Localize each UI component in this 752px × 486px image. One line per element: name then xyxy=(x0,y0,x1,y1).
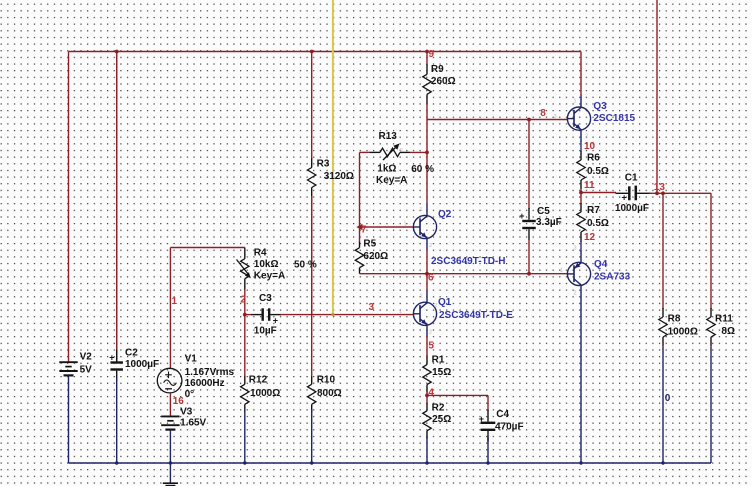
node 6 junction Q2emitter/Q1collector xyxy=(425,272,429,276)
resistor R8 xyxy=(659,308,667,348)
resistor R3 xyxy=(308,52,316,315)
svg-text:R3: R3 xyxy=(317,158,330,169)
svg-text:10: 10 xyxy=(584,141,596,152)
wire ground bottom bus net 0 xyxy=(69,462,712,464)
svg-text:1000Ω: 1000Ω xyxy=(668,327,698,338)
svg-text:+: + xyxy=(479,414,484,424)
potentiometer R13 xyxy=(360,144,428,161)
svg-text:V3: V3 xyxy=(180,406,193,417)
svg-text:3: 3 xyxy=(554,114,557,120)
svg-text:Key=A: Key=A xyxy=(376,175,407,186)
ground symbol xyxy=(163,463,178,486)
wire node2 down to R12 xyxy=(244,315,246,376)
node junction R8 top xyxy=(661,191,665,195)
svg-text:2: 2 xyxy=(585,134,588,140)
svg-text:3: 3 xyxy=(369,302,375,313)
svg-text:5: 5 xyxy=(428,340,434,351)
capacitor C1 xyxy=(616,186,651,203)
node 8 wire R9 to Q3 base xyxy=(427,119,568,121)
svg-text:15Ω: 15Ω xyxy=(432,367,451,378)
svg-text:R8: R8 xyxy=(668,314,681,325)
svg-text:2: 2 xyxy=(429,330,432,336)
svg-text:9: 9 xyxy=(429,49,435,60)
svg-text:1: 1 xyxy=(420,207,423,213)
wire C4 bottom to ground bus xyxy=(487,437,489,463)
svg-text:o: o xyxy=(400,147,403,153)
svg-text:3120Ω: 3120Ω xyxy=(324,171,354,182)
svg-text:16000Hz: 16000Hz xyxy=(185,378,225,389)
svg-text:R7: R7 xyxy=(587,205,600,216)
wire node13 down to R8 xyxy=(662,193,664,309)
svg-text:+: + xyxy=(109,353,114,363)
svg-text:3.3µF: 3.3µF xyxy=(536,217,562,228)
svg-text:R5: R5 xyxy=(363,238,376,249)
svg-text:1: 1 xyxy=(574,99,577,105)
svg-text:2SC3649T-TD-H: 2SC3649T-TD-H xyxy=(431,256,505,267)
svg-text:C3: C3 xyxy=(259,293,272,304)
wire node8 down to R13/Q2 xyxy=(426,120,428,205)
wire vertical x=657 from top to node 13 xyxy=(656,0,658,193)
svg-text:470µF: 470µF xyxy=(495,421,524,432)
pin marks xyxy=(399,99,588,336)
svg-text:R2: R2 xyxy=(432,403,445,414)
svg-text:10kΩ: 10kΩ xyxy=(254,259,279,270)
svg-text:R12: R12 xyxy=(249,374,268,385)
svg-text:1000µF: 1000µF xyxy=(615,203,649,214)
svg-text:60 %: 60 % xyxy=(411,164,434,175)
wire Q1 emitter to R1 node 5 xyxy=(426,336,428,356)
wire corner down to R11 xyxy=(710,193,712,309)
svg-text:R9: R9 xyxy=(431,64,444,75)
svg-text:V2: V2 xyxy=(80,352,93,363)
svg-text:1kΩ: 1kΩ xyxy=(377,164,396,175)
svg-text:50 %: 50 % xyxy=(294,260,317,271)
junction ground bus xyxy=(169,461,172,464)
svg-text:1.65V: 1.65V xyxy=(180,418,206,429)
svg-text:2: 2 xyxy=(240,295,246,306)
potentiometer R4 xyxy=(237,248,251,315)
node junction VCC/R3 xyxy=(310,50,314,54)
wire R11 bottom to ground bus xyxy=(710,348,712,464)
svg-text:2: 2 xyxy=(434,303,437,309)
battery V2 xyxy=(59,362,77,375)
junction ground bus xyxy=(425,461,428,464)
transistor Q3 xyxy=(567,96,590,142)
wire node 7 to Q2 base xyxy=(360,226,414,228)
svg-text:0°: 0° xyxy=(185,389,195,400)
wire R12 bottom to ground bus xyxy=(244,410,246,463)
svg-text:5V: 5V xyxy=(80,365,93,376)
node 9 junction VCC/R9 xyxy=(425,50,429,54)
resistor R1 xyxy=(423,355,431,395)
wire R5 bottom corner to node 6 bus xyxy=(360,273,568,275)
svg-text:C5: C5 xyxy=(537,206,550,217)
svg-text:R10: R10 xyxy=(317,374,336,385)
node junction VCC/C2 xyxy=(115,50,119,54)
svg-text:0.5Ω: 0.5Ω xyxy=(587,166,609,177)
svg-text:+: + xyxy=(519,211,524,221)
svg-text:1000Ω: 1000Ω xyxy=(250,388,280,399)
capacitor C4 xyxy=(479,395,496,441)
svg-text:1: 1 xyxy=(172,296,178,307)
yellow wire vertical to node 3 xyxy=(332,0,334,315)
resistor R10 xyxy=(308,376,316,413)
capacitor C3 xyxy=(245,308,281,325)
svg-text:11: 11 xyxy=(584,180,595,191)
svg-text:12: 12 xyxy=(584,232,596,243)
svg-text:1000µF: 1000µF xyxy=(125,359,159,370)
svg-text:0: 0 xyxy=(665,393,671,404)
node junction C5 bottom xyxy=(527,272,531,276)
AC source V1 xyxy=(157,368,182,393)
svg-text:8: 8 xyxy=(540,108,546,119)
wire Q3 emitter node 10 to R6 xyxy=(580,141,582,152)
svg-text:7: 7 xyxy=(361,224,367,235)
wire V1 bottom net16 to V3 xyxy=(169,393,171,417)
transistor Q1 xyxy=(413,291,436,337)
junction ground bus xyxy=(115,461,118,464)
node junction R13 right xyxy=(425,151,429,155)
svg-text:13: 13 xyxy=(654,182,666,193)
resistor R11 xyxy=(707,308,715,348)
svg-text:R6: R6 xyxy=(587,152,600,163)
svg-text:2SA733: 2SA733 xyxy=(594,271,631,282)
svg-text:4: 4 xyxy=(428,388,434,399)
svg-text:10µF: 10µF xyxy=(254,326,277,337)
svg-text:0.5Ω: 0.5Ω xyxy=(587,218,609,229)
svg-text:Q3: Q3 xyxy=(593,101,607,112)
node 2 junction R4/C3/R12 xyxy=(243,313,247,317)
resistor R5 xyxy=(355,227,363,274)
wire VCC top bus y=51.5 xyxy=(69,51,582,53)
svg-text:Q4: Q4 xyxy=(594,259,608,270)
svg-text:6: 6 xyxy=(428,272,434,283)
resistor R12 xyxy=(241,376,249,413)
junction ground bus xyxy=(486,461,489,464)
svg-text:3: 3 xyxy=(574,246,577,252)
wire VCC corner down to Q3 collector xyxy=(580,52,582,97)
wire V1 node1 up and right to R4 xyxy=(169,248,171,369)
node 4 wire R1-R2-C4 xyxy=(427,394,488,396)
resistor R2 xyxy=(423,395,431,438)
capacitor C5 xyxy=(519,121,536,273)
svg-text:R4: R4 xyxy=(254,248,267,259)
svg-text:+: + xyxy=(273,316,278,326)
svg-text:V1: V1 xyxy=(185,353,198,364)
svg-text:C1: C1 xyxy=(625,173,638,184)
resistor R9 xyxy=(423,52,431,120)
wire node 11 to C1 xyxy=(581,192,616,194)
battery V3 xyxy=(161,416,179,429)
wire R8 bottom to ground bus xyxy=(662,348,664,464)
wire vertical to C2 xyxy=(116,52,118,363)
svg-text:2SC3649T-TD-E: 2SC3649T-TD-E xyxy=(439,310,513,321)
wire R7 bottom node 12 to Q4 emitter xyxy=(580,241,582,252)
svg-text:260Ω: 260Ω xyxy=(431,76,456,87)
wire node 13 to R11 corner xyxy=(650,192,712,194)
svg-text:1.167Vrms: 1.167Vrms xyxy=(185,367,235,378)
wire Q4 collector to ground bus (net 0) xyxy=(580,297,582,464)
svg-text:8Ω: 8Ω xyxy=(721,326,735,337)
wire node6 to Q1 collector xyxy=(426,274,428,291)
svg-text:Q1: Q1 xyxy=(438,297,452,308)
junction ground bus xyxy=(579,461,582,464)
wire Q2 emitter to node 6 xyxy=(426,250,428,274)
svg-text:2: 2 xyxy=(429,243,432,249)
svg-text:16: 16 xyxy=(173,396,185,407)
resistor R6 xyxy=(577,151,585,193)
svg-text:2: 2 xyxy=(574,291,577,297)
wire C2 bottom to ground bus xyxy=(116,378,118,463)
transistor Q2 xyxy=(413,204,436,250)
resistor R7 xyxy=(577,193,585,243)
svg-text:R1: R1 xyxy=(432,355,445,366)
svg-text:R11: R11 xyxy=(715,314,733,325)
svg-text:620Ω: 620Ω xyxy=(363,251,388,262)
svg-text:Key=A: Key=A xyxy=(254,270,285,281)
svg-text:R13: R13 xyxy=(379,131,398,142)
svg-text:1: 1 xyxy=(404,222,407,228)
node junction C5 top xyxy=(527,118,531,122)
node 13 junction from top xyxy=(655,191,659,195)
svg-text:2SC1815: 2SC1815 xyxy=(593,113,635,124)
junction ground bus xyxy=(310,461,313,464)
svg-text:1: 1 xyxy=(399,309,402,315)
svg-text:1: 1 xyxy=(560,268,563,274)
junction ground bus xyxy=(243,461,246,464)
svg-text:25Ω: 25Ω xyxy=(432,414,451,425)
node 11 junction xyxy=(579,191,583,195)
wire R10 bottom to ground bus xyxy=(311,410,313,463)
svg-text:+: + xyxy=(622,193,627,203)
node 7 junction arrow xyxy=(356,224,362,230)
transistor Q4 xyxy=(567,251,590,297)
wire V3 bottom to ground bus xyxy=(169,430,171,463)
svg-text:C2: C2 xyxy=(125,348,138,359)
capacitor C2 xyxy=(109,52,123,382)
wire V2 bottom to ground bus xyxy=(68,375,70,463)
svg-text:1: 1 xyxy=(420,294,423,300)
svg-text:800Ω: 800Ω xyxy=(317,388,342,399)
wire R2 bottom to ground bus xyxy=(426,437,428,463)
wire R3 to R10 crossing node3 xyxy=(311,197,313,376)
wire R13 left down to node 7 xyxy=(359,152,361,227)
svg-text:C4: C4 xyxy=(496,409,509,420)
node junction yellow wire end xyxy=(331,313,334,316)
svg-text:Q2: Q2 xyxy=(438,209,452,220)
junction ground bus xyxy=(661,461,664,464)
wire node 3 C3 to Q1 base xyxy=(281,314,414,316)
wire left supply vertical to V2 xyxy=(68,52,70,363)
